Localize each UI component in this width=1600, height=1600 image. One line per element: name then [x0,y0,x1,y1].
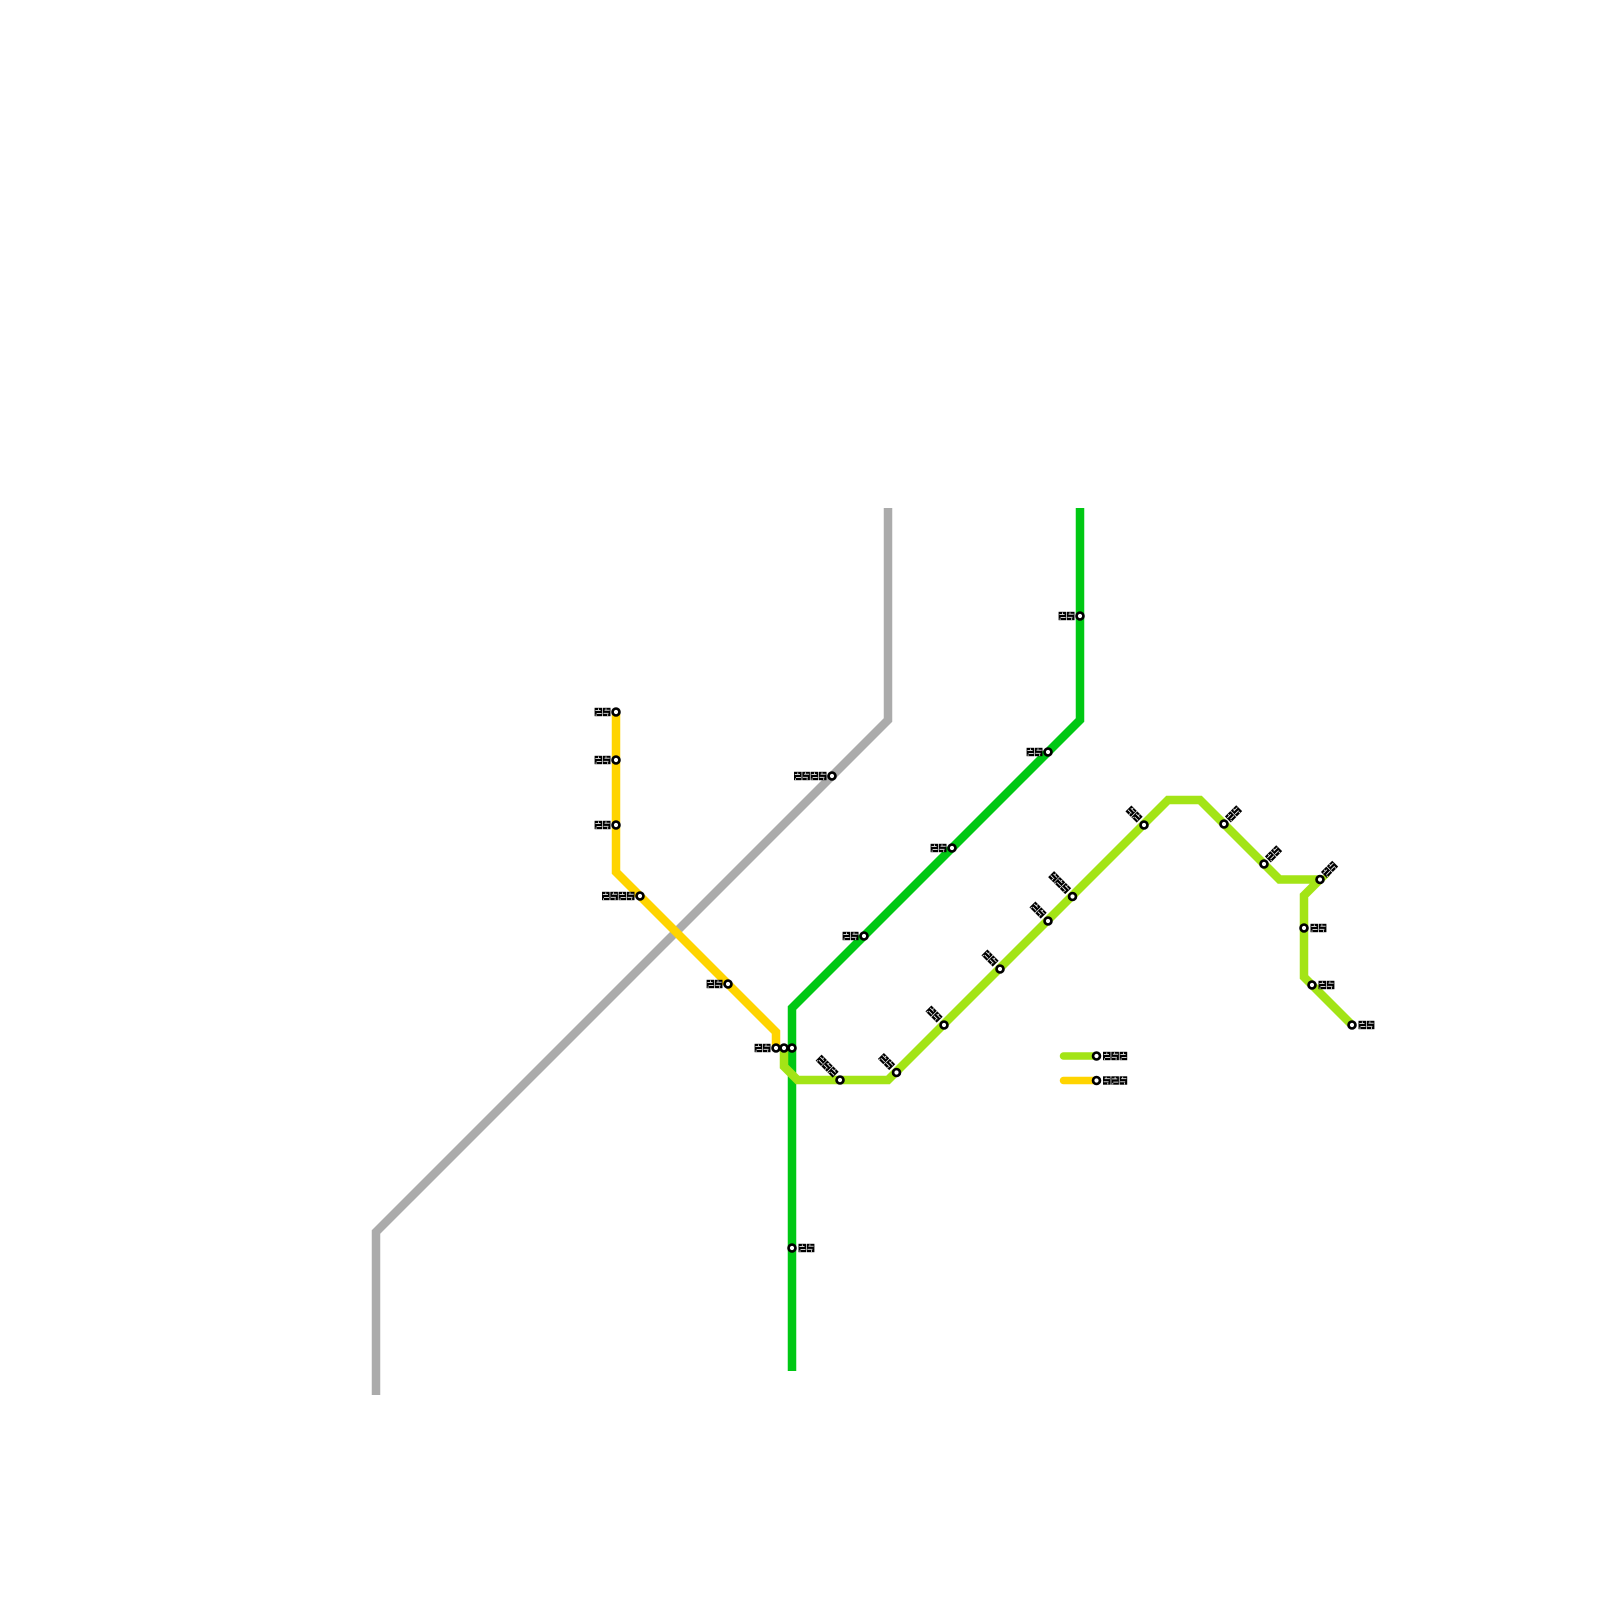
station Honan (l.green) [1141,822,1148,829]
interchange cluster (yellow/l.green/green) [773,1045,780,1052]
station Hamajima (green) [1077,613,1084,620]
station Shinsei-gomae (yellow) [637,893,644,900]
station Taihara (yellow) [613,822,620,829]
station Tajiri (green) [789,1245,796,1252]
light green line [784,800,1352,1080]
station Yokote (l.green) [1261,861,1268,868]
station Tamako (yellow) [613,757,620,764]
station Shirohama (l.green) [1309,982,1316,989]
gray line [376,508,888,1395]
station Kamimizo (l.green) [1221,821,1228,828]
station Tamayone (l.green terminus) [1349,1022,1356,1029]
legend corn line (light green) [1064,1052,1094,1060]
station Kawakita (l.green) [1069,893,1076,900]
station Nishitama (l.green) [893,1069,900,1076]
station Yonaizumi (l.green) [1317,876,1324,883]
station Kojima (l.green) [1301,925,1308,932]
legend lake line (yellow) [1064,1077,1094,1085]
station Takatetsu (yellow terminus) [613,709,620,716]
station Konishi (green) [861,933,868,940]
station Nitta (green) [949,845,956,852]
station Yoshio (l.green) [997,966,1004,973]
yellow line [616,712,776,1048]
dark green line [792,508,1080,1371]
station Tomei-kogen (gray) [829,773,836,780]
station Matsuura (l.green) [1045,918,1052,925]
station Aoki (l.green) [941,1022,948,1029]
station Yunoshita (l.green) [837,1077,844,1084]
station Fujihata (yellow) [725,981,732,988]
station Ishizuchi (green) [1045,749,1052,756]
